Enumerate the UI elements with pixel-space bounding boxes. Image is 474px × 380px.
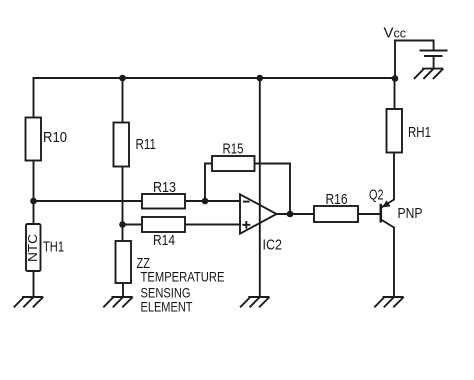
junction dot rail-R11	[119, 75, 126, 82]
op-amp IC2 triangle	[240, 194, 277, 233]
svg-text:RH1: RH1	[408, 124, 431, 141]
svg-text:R15: R15	[223, 141, 244, 158]
wire rail to RH1	[394, 78, 396, 109]
battery B1 top plate	[421, 50, 447, 52]
battery B1 bottom plate	[425, 55, 442, 57]
svg-text:PNP: PNP	[398, 205, 423, 222]
op-amp plus sign	[242, 221, 250, 229]
svg-text:Vcc: Vcc	[384, 25, 407, 42]
svg-text:IC2: IC2	[263, 237, 283, 254]
svg-text:R16: R16	[326, 191, 348, 208]
transistor Q2 base bar	[379, 204, 382, 223]
svg-text:ELEMENT: ELEMENT	[141, 299, 193, 315]
junction dot R15-R13	[202, 198, 209, 205]
ground under op-amp supply	[240, 297, 269, 307]
svg-text:R11: R11	[136, 136, 157, 153]
wire battery to chassis ground	[433, 56, 435, 69]
svg-text:NTC: NTC	[25, 234, 40, 262]
wire R13 input line	[34, 200, 241, 202]
ground under ZZ	[103, 297, 132, 307]
resistor R10	[26, 118, 42, 161]
wire TH1 to ground	[33, 271, 35, 297]
resistor R15	[212, 156, 255, 171]
transistor Q2 emitter diagonal	[381, 200, 395, 209]
svg-text:TH1: TH1	[43, 239, 64, 256]
wire R15 left lead	[205, 164, 212, 202]
junction dot ZZ-R14	[119, 221, 126, 228]
wire left drop to TH1	[33, 78, 35, 224]
svg-text:R13: R13	[153, 179, 176, 196]
wire op-amp output	[277, 213, 315, 215]
resistor RH1	[387, 109, 403, 153]
resistor R13	[142, 194, 185, 209]
temperature sensing element ZZ box	[116, 241, 132, 283]
resistor R14	[142, 217, 185, 232]
resistor R16	[314, 206, 358, 222]
wire ZZ to ground	[122, 283, 124, 297]
ground under Q2	[374, 297, 403, 307]
wire rail to R11	[122, 78, 124, 122]
transistor Q2 emitter arrow	[382, 200, 391, 207]
junction dot TH1-R13	[30, 198, 37, 205]
wire Q2 collector to ground	[393, 228, 395, 298]
wire R11 to ZZ	[122, 167, 124, 241]
svg-text:R14: R14	[153, 232, 175, 249]
junction dot rail-supply	[257, 75, 264, 82]
thermistor TH1	[26, 224, 41, 271]
ground under TH1	[14, 297, 43, 307]
wire top rail	[34, 77, 396, 79]
wire Vcc to battery	[395, 41, 434, 51]
wire R14 input line	[123, 224, 241, 226]
wire base of Q2	[358, 213, 380, 215]
resistor R11	[114, 123, 130, 167]
svg-text:R10: R10	[43, 129, 67, 146]
svg-text:Q2: Q2	[369, 187, 384, 204]
chassis ground under battery	[414, 69, 443, 79]
svg-text:TEMPERATURE: TEMPERATURE	[141, 268, 225, 284]
wire RH1 to Q2 emitter	[393, 153, 395, 200]
op-amp minus sign	[243, 201, 250, 203]
junction dot output	[287, 211, 294, 218]
wire op-amp supply line	[259, 78, 261, 297]
junction dot rail-RH1	[392, 75, 399, 82]
wire Vcc stub	[394, 41, 396, 79]
wire R15 right lead to output	[255, 164, 291, 215]
transistor Q2 collector diagonal	[381, 220, 394, 228]
